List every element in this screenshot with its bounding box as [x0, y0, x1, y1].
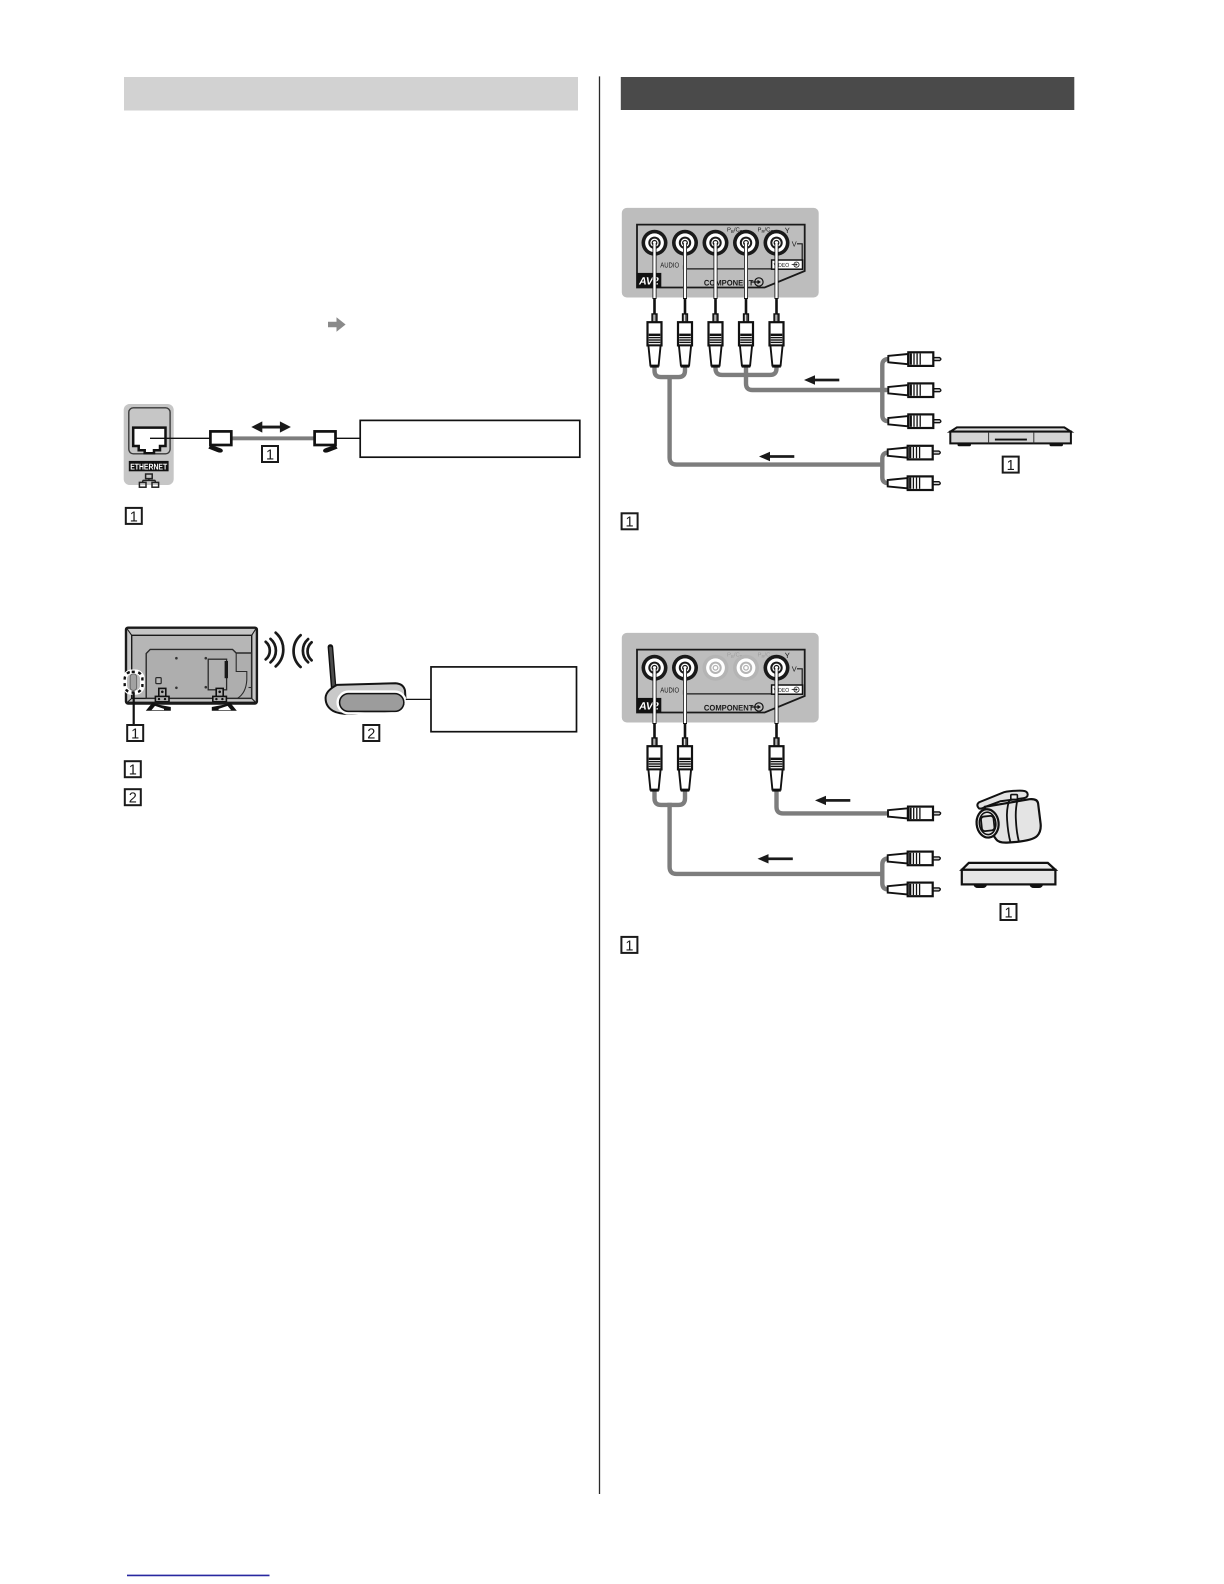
RCA plug 3 (PB)	[709, 314, 723, 366]
wire audio trunk run	[670, 803, 884, 874]
wire video run	[777, 788, 890, 813]
label 1 (DVD)	[1003, 457, 1019, 474]
jack Y/VIDEO	[764, 655, 790, 681]
radio waves from TV	[266, 633, 312, 667]
jack AUDIO R	[672, 655, 698, 681]
leader line to label 1	[133, 693, 135, 726]
TV back view	[126, 628, 257, 711]
wire video fan trunk	[882, 359, 889, 421]
RCA plug 2 (audio R)	[678, 314, 692, 366]
label 1 cable	[262, 446, 278, 463]
svg-text:1: 1	[129, 763, 137, 779]
access point white box	[431, 667, 577, 732]
wire: router to box	[406, 698, 431, 700]
jack AUDIO R	[672, 230, 698, 256]
svg-text:COMPONENT: COMPONENT	[704, 704, 754, 713]
LAN plug right	[315, 431, 338, 452]
column divider line	[599, 76, 601, 1494]
RCA plug 2 (audio R)	[678, 738, 692, 790]
wire video trunk run	[746, 364, 889, 390]
audio fan plug bottom	[888, 476, 941, 490]
svg-text:1: 1	[266, 447, 274, 463]
wire audio L to junction	[655, 788, 670, 805]
lead wire jack 4	[744, 243, 748, 316]
foot right	[212, 702, 237, 710]
list marker 1 (wireless)	[125, 761, 141, 778]
footer rule	[127, 1574, 270, 1576]
svg-text:2: 2	[129, 791, 137, 807]
stand bracket right	[216, 688, 223, 698]
stand bracket left	[159, 688, 166, 698]
svg-text:1: 1	[1004, 905, 1012, 921]
wire audio L to junction	[655, 364, 670, 377]
svg-text:1: 1	[130, 509, 138, 525]
svg-text:2: 2	[367, 726, 375, 742]
recessed back panel	[146, 649, 251, 698]
jack AUDIO L	[642, 230, 668, 256]
lead wire jack 3	[714, 243, 718, 316]
AV2 terminal panel 2	[622, 633, 819, 723]
wire PB to junction	[716, 364, 745, 375]
list marker 2 (wireless)	[125, 789, 141, 806]
svg-text:AUDIO: AUDIO	[660, 261, 679, 270]
lead wire jack 2	[683, 243, 687, 316]
svg-text:1: 1	[626, 515, 634, 531]
svg-text:V: V	[792, 665, 797, 674]
svg-text:1: 1	[1007, 458, 1015, 474]
list marker 1 (diagram 2)	[621, 937, 637, 954]
bottom frame edge	[127, 702, 256, 705]
jack PR/CR	[733, 230, 759, 256]
signal arrow (video 2)	[815, 796, 850, 805]
dashed highlight on TV terminal	[125, 672, 143, 693]
connection terminal box	[208, 659, 226, 690]
gray reference arrow	[328, 317, 346, 331]
RCA plug 5 (Y)	[770, 314, 784, 366]
wire Y to junction	[748, 364, 777, 375]
component fan plug bottom	[888, 414, 941, 428]
wire: jack to LAN plug	[150, 437, 210, 439]
jack PR/CR (inactive)	[733, 655, 759, 681]
lead wire jack 1	[653, 243, 657, 316]
jack Y/VIDEO	[764, 230, 790, 256]
set-top box	[962, 863, 1056, 888]
list marker 1 (diagram 1)	[622, 513, 638, 530]
audio fan plug bottom	[888, 883, 941, 897]
left section header bar	[124, 77, 578, 111]
right section header bar	[621, 77, 1075, 110]
jack PB/CB (inactive)	[703, 655, 729, 681]
wire audio fan trunk	[882, 858, 889, 889]
wireless router	[326, 647, 406, 714]
svg-text:ETHERNET: ETHERNET	[130, 461, 168, 471]
lead wire jack 1	[653, 668, 657, 741]
component fan plug middle	[888, 383, 941, 397]
jack AUDIO L	[642, 655, 668, 681]
label 2 (router)	[363, 725, 379, 742]
double arrow	[251, 421, 291, 432]
signal arrow (video)	[804, 375, 839, 384]
RCA plug 4 (PR)	[739, 314, 753, 366]
wire audio R to junction	[670, 788, 685, 805]
RCA plug 1 (audio L)	[648, 314, 662, 366]
audio fan plug top	[888, 852, 941, 866]
lead wire jack 2	[683, 668, 687, 741]
svg-text:1: 1	[625, 938, 633, 954]
audio fan plug top	[888, 446, 941, 460]
ethernet terminal icon	[124, 404, 174, 487]
list marker 1 (ethernet)	[126, 508, 142, 525]
svg-text:V: V	[792, 240, 797, 249]
wire audio fan trunk	[882, 453, 889, 484]
component fan plug top	[888, 352, 941, 366]
label 1 (TV terminal)	[127, 725, 143, 742]
svg-text:1: 1	[131, 726, 139, 742]
RCA plug 5 (video)	[770, 738, 784, 790]
wire audio trunk run	[670, 375, 884, 465]
small label plate	[156, 678, 161, 684]
jack PB/CB	[703, 230, 729, 256]
svg-text:AUDIO: AUDIO	[660, 686, 679, 695]
signal arrow (audio 2)	[758, 854, 793, 863]
screws	[175, 657, 178, 660]
lead wire jack 5	[775, 668, 779, 741]
hub/router white box	[360, 420, 580, 457]
camcorder	[975, 791, 1041, 843]
wire audio R to junction	[670, 364, 685, 377]
DVD player	[950, 427, 1071, 446]
LAN cable between plugs	[228, 436, 318, 440]
label 1 (camcorder gear)	[1001, 904, 1017, 921]
foot left	[146, 702, 171, 710]
RCA plug 1 (audio L)	[648, 738, 662, 790]
video plug single	[888, 807, 941, 821]
AV2 terminal panel 1	[622, 208, 819, 298]
signal arrow (audio)	[759, 452, 794, 461]
LAN plug left	[208, 431, 231, 452]
wire: plug to hub box	[336, 437, 361, 439]
lead wire jack 5	[775, 243, 779, 316]
